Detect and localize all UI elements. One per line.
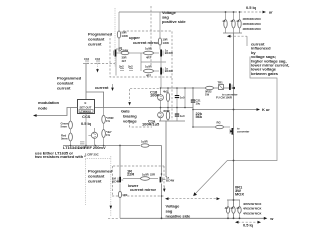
wire ccs bottom rail [63,145,140,147]
capacitor C17a right of dotted edge [119,65,124,71]
wire spare column x185 [184,88,186,108]
svg-text:LT1634-1.25: LT1634-1.25 [63,145,86,150]
svg-text:voltage: voltage [123,119,137,124]
led D2 red [61,133,72,146]
svg-text:C16: C16 [95,57,100,61]
dashed boundary positive side [150,6,152,65]
svg-text:BC4W: BC4W [165,51,173,55]
arrow down pcc upper [96,69,99,72]
resistor R50 left branch [117,31,128,39]
transistor Q7 on bus upper [222,84,239,97]
dotted corridor right [110,156,112,216]
wire m5 source to bottom rail [161,184,163,219]
wire left mirror branch from rail [118,12,120,31]
svg-text:4R05/3W MOX: 4R05/3W MOX [243,17,261,21]
resistor R4k7 star [102,130,112,146]
junction dots top rail [225,11,227,13]
svg-text:K ur: K ur [262,107,270,112]
svg-text:1u0: 1u0 [180,114,185,118]
svg-text:negative side: negative side [166,214,192,219]
arrow callout end [193,192,197,196]
svg-text:.15: .15 [222,19,226,23]
arrow bottom rail right [264,217,268,220]
svg-text:4R05/3W MOX: 4R05/3W MOX [243,207,261,211]
label C1a 100R 1u5 [142,118,160,126]
transistor Q8 on bus lower [230,127,250,135]
svg-text:E: E [85,101,87,105]
svg-text:.15: .15 [230,19,234,23]
wire mirror feed from rail [119,146,121,179]
label Programmed constant current lower [88,169,113,184]
svg-text:current: current [88,179,102,184]
wire K ur line [193,109,257,111]
transistor Q6 clamp lower [158,108,164,122]
label Programmed constant current upper [88,32,113,47]
wire gate feed y107.5 [95,107,194,109]
label bus sense resistor [235,185,244,197]
transistor Q5 clamp upper [158,88,164,108]
svg-text:1u0R: 1u0R [141,140,148,144]
svg-text:C16: C16 [84,57,89,61]
svg-text:0.5 Iq: 0.5 Iq [243,223,254,228]
wire to left mirror fet [116,38,119,49]
wire row1 to right fet [154,52,160,54]
svg-text:.15: .15 [230,206,234,210]
wire row2 to right fet [154,70,160,72]
resistor R100 row1 [144,47,154,60]
svg-text:to converter: to converter [222,93,239,97]
wire stub below dashed arrow [246,36,248,46]
arrow dashed right neg [217,197,221,200]
arrow measure right [258,221,262,224]
svg-text:1/4W: 1/4W [122,34,129,38]
dashed box upper current mirror [110,31,172,77]
resistor Rlm [123,173,158,181]
wire m4 source down [119,184,121,192]
svg-text:.15: .15 [236,19,240,23]
resistor R470 star [102,108,114,130]
arrow positive rail right [263,11,267,14]
svg-text:4R7: 4R7 [146,56,151,60]
svg-text:MOX: MOX [235,192,244,197]
svg-text:between gates: between gates [251,71,279,76]
resistor Rs lower [118,191,127,218]
svg-text:1R0: 1R0 [122,193,127,197]
arrow measure left [235,221,239,224]
svg-text:2n2: 2n2 [119,65,124,69]
svg-text:upper: upper [129,35,140,40]
svg-text:BC4W: BC4W [165,69,173,73]
wire resistor to fet drain [159,45,161,49]
svg-text:10u: 10u [196,102,201,106]
arrow K ur [257,108,261,111]
svg-text:BC4W: BC4W [112,180,120,184]
wire ccs out staircase [86,92,104,108]
transistor M2 mirror right row1 [160,49,173,57]
svg-text:1u0R: 1u0R [142,173,149,177]
dashed top edge gate biasing [130,88,160,90]
wire m3 source to gate bus [160,75,162,89]
svg-text:.15: .15 [236,206,240,210]
svg-text:4R7: 4R7 [146,74,151,78]
wire between row1 resistors [129,52,143,54]
callout leader from note to lower mirror [195,57,277,195]
svg-text:current mirror: current mirror [130,187,156,192]
label upper current mirror [129,35,159,45]
wire bottom negative rail [120,217,264,219]
led D1 green [61,121,73,133]
wire positive branch from rail [159,12,161,38]
svg-text:4R05/3W MOX: 4R05/3W MOX [243,202,261,206]
dashed arrow neg box to bus [168,198,216,200]
svg-text:0.5 Iq: 0.5 Iq [246,5,257,10]
label lower current mirror [128,183,156,192]
svg-text:22R: 22R [127,172,134,177]
svg-text:1 CRF 25C: 1 CRF 25C [85,153,99,157]
wire dashed continuation of positive rail [240,11,263,13]
arrow gate biasing down [128,102,131,105]
label Gate biasing voltage [121,109,137,124]
svg-text:4k2: 4k2 [163,90,168,94]
label LT1634 [63,145,106,150]
arrow modulation node [33,114,37,117]
capacitor C16a on pcc edge [84,57,89,63]
svg-text:0.5 Iq: 0.5 Iq [81,121,92,126]
resistor R0R22 on gate bus [205,86,214,96]
svg-text:22R: 22R [150,173,155,177]
svg-text:converter: converter [237,130,250,134]
svg-text:positive side: positive side [162,19,186,24]
svg-text:RG: RG [217,121,221,125]
svg-text:1/4W: 1/4W [163,41,170,45]
label modulation node [38,100,60,111]
wire ccs bottom leg [85,114,87,146]
svg-text:REF 200mV: REF 200mV [84,145,106,150]
resistor R100 row2 [144,65,154,78]
svg-text:1u0R: 1u0R [145,65,152,69]
svg-text:5mm: 5mm [61,137,68,141]
arrow current down [111,84,114,91]
svg-text:TR1: TR1 [218,81,224,85]
resistor RG [216,121,231,129]
svg-text:1W: 1W [205,93,210,97]
resistor Rq2 [230,12,236,33]
svg-text:current: current [57,86,71,91]
transistor M3 mirror right row2 [160,67,173,75]
svg-text:node: node [38,106,48,111]
svg-text:BC4W: BC4W [166,179,174,183]
wire trio bottom rail [223,32,242,34]
resistor Rq1 [222,12,228,33]
svg-text:4R05/3W MOX: 4R05/3W MOX [243,27,261,31]
resistor Rqb2 [230,200,236,218]
capacitor C16b on pcc edge [95,57,100,63]
capacitor Cc2 clamp lower [175,108,185,122]
capacitor Cc1 clamp upper [175,88,185,108]
capacitor C17b right of dotted edge [128,65,133,71]
trimmer TR1 on gate bus [216,81,232,100]
resistor Rq3 [236,12,242,33]
dashed right edge below mirror [171,78,173,120]
junction dot x193 y127 [192,126,194,128]
wire top positive rail [119,11,237,13]
junction dots y88 [160,87,162,89]
wire gate bus y88 [160,87,229,89]
resistor Rc1 clamp upper [163,88,170,108]
note use either [35,151,86,159]
wire m2 source to m3 drain [160,57,162,68]
dashed corridor bottom edge [108,217,119,219]
dashed arrow to upper trio [230,35,247,37]
wire y127 line [193,126,215,128]
svg-text:56k: 56k [196,114,203,119]
svg-text:1u0R: 1u0R [145,47,152,51]
dashed box lower current mirror [112,166,164,196]
junction dots bottom trio [227,217,229,219]
wire clamp lower bottom tie [159,120,185,122]
svg-text:2n2: 2n2 [128,65,133,69]
gate tie line row1 row2 [141,53,166,71]
arrow down onto neg box [163,186,166,192]
svg-text:current: current [88,42,102,47]
svg-text:ur: ur [269,10,273,15]
resistor Rc2 clamp lower [163,108,170,122]
svg-text:current: current [95,85,109,90]
wire main right bus [233,33,235,218]
arrow dashed left neg [165,197,169,200]
label Voltage sag positive side [162,10,186,24]
transistor M4 mirror lower left [112,177,123,184]
svg-text:450R: 450R [163,109,170,113]
dashed measure bottom [238,221,258,223]
dashed bottom edge upper pcc [83,63,115,65]
svg-text:1%: 1% [106,119,111,123]
note current influenced text block [251,42,289,76]
dotted stub with down arrow into CCS [97,65,99,70]
transistor M5 output lower [160,176,175,183]
svg-text:LTM8062: LTM8062 [80,109,92,113]
dashed lower edge gate biasing [130,122,152,128]
svg-text:4R05/3W MOX: 4R05/3W MOX [243,22,261,26]
junction dots y107 [160,107,162,109]
svg-text:current mirror: current mirror [133,40,159,45]
label mirror gate tie [127,169,134,177]
svg-text:4R05/3W MOX: 4R05/3W MOX [243,211,261,215]
wire m5 drain from ccs rail [161,146,163,177]
label C18 100R 1uH [150,90,160,98]
label Programmed constant current middle [57,76,82,91]
wire mirror left source down [115,57,117,76]
wire ccs left leg [71,108,78,122]
arrow dashed left [227,35,231,38]
label divider on x193 [196,111,203,119]
wire gate feed to lower fet [165,121,167,177]
svg-text:1n5: 1n5 [180,95,185,99]
junction dot bus kur [233,109,235,111]
capacitor C100n [76,142,84,150]
wire trio top rail bottom [227,199,240,201]
transistor M1 mirror left [114,46,129,57]
transistor Q1 ccs [88,128,97,146]
resistor Rqb3 [236,200,242,218]
wire ccs supply from pcc [85,64,87,100]
junction dots ccs rail [70,145,72,147]
svg-text:two resistors marked with *: two resistors marked with * [35,154,86,159]
dotted boundary upper pcc [114,8,116,67]
svg-text:1%: 1% [106,133,111,137]
capacitor C21 on x193 [191,88,201,127]
svg-text:4k7: 4k7 [122,59,127,63]
op-amp U1 CCS box [78,100,95,114]
junction dot x193 kur [192,109,194,111]
junction dot bus y160 [233,160,235,162]
dotted corridor top edge [86,158,112,160]
wire modulation node [36,108,78,116]
svg-text:.15: .15 [224,206,228,210]
svg-text:100R/1u5: 100R/1u5 [142,122,160,127]
dashed left edge gate biasing [129,89,131,101]
svg-text:5mm: 5mm [61,125,68,129]
svg-text:modulation: modulation [38,100,60,105]
arrow down pcc lower [110,206,113,209]
dotted corridor left [85,159,87,205]
label Voltage sag negative side [166,204,192,219]
resistor R1R0 positive branch [158,38,169,46]
resistor Rrail [141,140,162,148]
resistor R35 row1 [118,51,129,63]
resistor Rqb1 [224,200,230,218]
